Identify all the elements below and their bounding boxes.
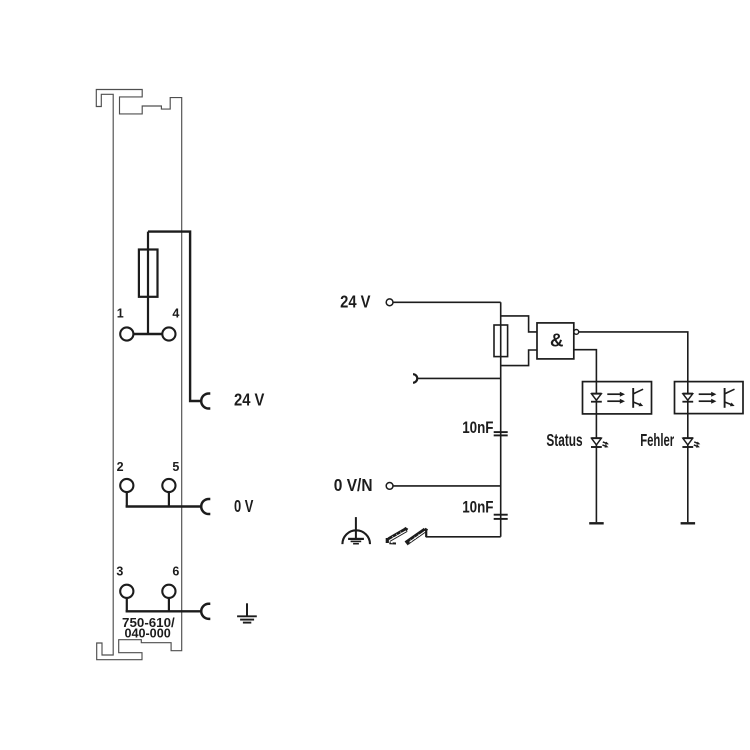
- wire open input to node: [417, 377, 500, 379]
- contact 1: [120, 327, 133, 340]
- wire stub contact 6: [168, 598, 170, 611]
- ground symbol (module earth): [237, 603, 257, 622]
- terminal circle 24V: [386, 299, 393, 306]
- wire 24V input: [393, 301, 501, 303]
- DIN rail symbol: [387, 528, 427, 545]
- clamp contact 24V: [201, 393, 210, 408]
- svg-text:0 V: 0 V: [234, 496, 254, 516]
- fuse F1 (schematic): [494, 325, 508, 357]
- wire main vertical node: [500, 302, 502, 537]
- wire 0V/N input: [393, 485, 501, 487]
- svg-text:2: 2: [117, 460, 124, 474]
- capacitor C2: [494, 515, 508, 519]
- contact 3: [120, 585, 133, 598]
- contact 4: [162, 327, 175, 340]
- inverter bubble: [574, 330, 579, 335]
- svg-text:10nF: 10nF: [462, 499, 493, 517]
- svg-text:&: &: [550, 331, 564, 351]
- svg-text:5: 5: [172, 460, 179, 474]
- capacitor C1: [494, 432, 508, 435]
- wire 24V feed from fuse top to clamp: [148, 232, 202, 401]
- light arrows U2: [607, 392, 625, 404]
- svg-text:24 V: 24 V: [340, 292, 371, 312]
- open input connector: [413, 374, 417, 383]
- fuse F1 (module): [139, 250, 158, 297]
- wire stub contact 3: [126, 598, 128, 611]
- wire status chain vertical: [595, 382, 597, 523]
- phototransistor U2: [633, 388, 643, 408]
- svg-text:4: 4: [172, 307, 179, 321]
- contact 6: [162, 585, 175, 598]
- svg-text:Status: Status: [546, 430, 582, 450]
- svg-text:Fehler: Fehler: [640, 430, 674, 450]
- wire contact bus row 1: [133, 333, 162, 335]
- wire contact bus row 2: [126, 505, 202, 507]
- emission arrows D2: [694, 442, 701, 448]
- wire gate output to Fehler chain: [579, 332, 688, 382]
- chassis terminator Status: [589, 522, 604, 524]
- terminal circle 0V/N: [386, 483, 393, 490]
- wire fuse bypass top: [501, 316, 537, 332]
- chassis terminator Fehler: [681, 522, 696, 524]
- optocoupler U2 (Status): [583, 382, 652, 414]
- wire through fuse to contact bus: [147, 232, 149, 334]
- and gate U1: [537, 323, 574, 359]
- wire stub contact 2: [126, 492, 128, 506]
- svg-text:24 V: 24 V: [234, 390, 265, 410]
- svg-text:040-000: 040-000: [124, 626, 170, 641]
- svg-text:3: 3: [116, 565, 123, 579]
- phototransistor U3: [725, 388, 735, 408]
- wire fuse bypass bottom: [501, 350, 537, 366]
- wire stub contact 5: [168, 492, 170, 506]
- contact 5: [162, 479, 175, 492]
- svg-text:10nF: 10nF: [462, 419, 493, 437]
- wire gate to Status chain: [574, 350, 597, 382]
- wire ground bus: [426, 536, 501, 538]
- module outline: [96, 90, 181, 660]
- status LED D1: [591, 438, 602, 447]
- svg-text:6: 6: [172, 565, 179, 579]
- svg-text:0 V/N: 0 V/N: [334, 475, 373, 495]
- wire contact bus row 3: [126, 610, 202, 612]
- contact 2: [120, 479, 133, 492]
- wire fehler chain vertical: [687, 382, 689, 523]
- light arrows U3: [699, 392, 717, 404]
- svg-text:1: 1: [117, 307, 124, 321]
- LED inside U2: [591, 394, 602, 402]
- LED inside U3: [682, 394, 693, 402]
- clamp contact 0V: [201, 499, 210, 514]
- optocoupler U3 (Fehler): [675, 382, 744, 414]
- functional earth symbol: [342, 517, 370, 544]
- emission arrows D1: [602, 442, 609, 448]
- fehler LED D2: [682, 438, 693, 447]
- clamp contact earth: [201, 604, 210, 619]
